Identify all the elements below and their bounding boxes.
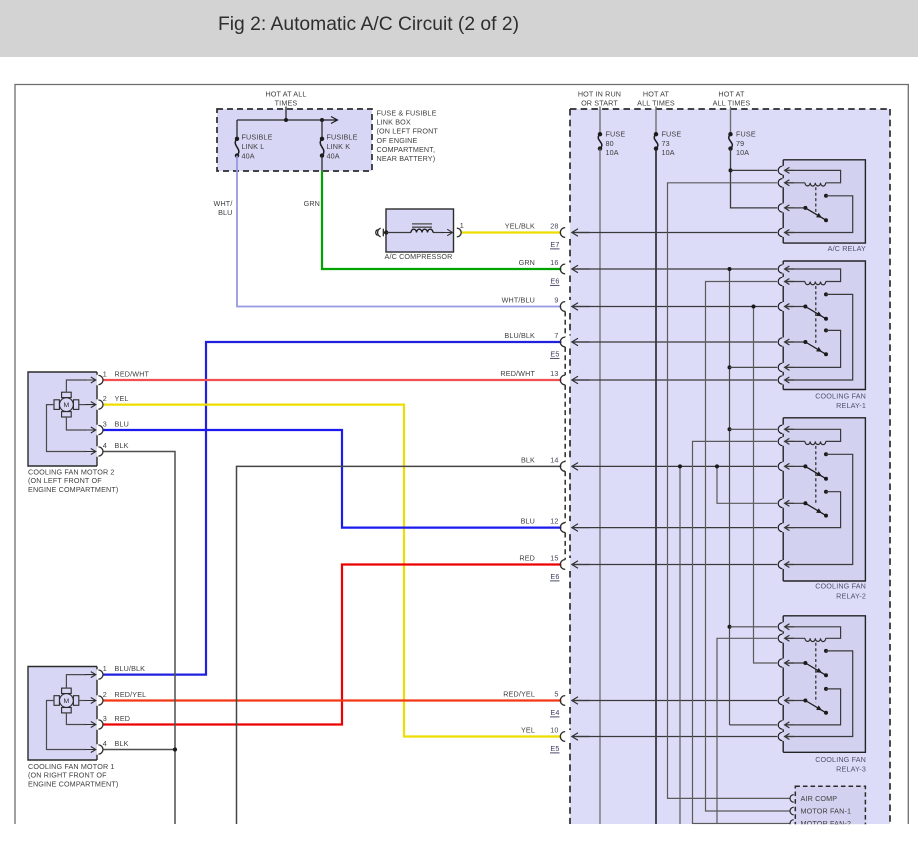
svg-text:BLK: BLK [115, 441, 129, 450]
wire BLK motor2 [103, 452, 175, 825]
cooling fan relay-1 box [783, 261, 865, 390]
svg-text:GRN: GRN [304, 199, 320, 208]
svg-text:RED: RED [115, 714, 131, 723]
node BLK branch [678, 464, 682, 468]
svg-text:BLK: BLK [521, 456, 535, 465]
cooling fan relay-2 pin 4 connector [778, 499, 782, 507]
A/C relay switch 1 output loop [785, 196, 853, 233]
wire BLK branch down [679, 466, 681, 824]
node GRN bus relay3 pin1 [728, 625, 732, 629]
wire row blu internal [572, 527, 777, 529]
cooling fan relay-3 coil feed loop [785, 627, 841, 639]
wire GRN [322, 171, 561, 269]
svg-text:15: 15 [550, 554, 558, 563]
svg-text:16: 16 [550, 258, 558, 267]
arrow RED/WHT [572, 376, 590, 384]
cooling fan motor 2 box [28, 372, 97, 466]
svg-text:1: 1 [103, 664, 107, 673]
cooling fan motor 1 wire pin2 [79, 700, 86, 702]
A/C relay actuator dashed link [815, 187, 817, 212]
node bus junction at link K [320, 118, 324, 122]
svg-text:WHT/: WHT/ [214, 199, 233, 208]
node GRN bus relay1 pin5 [728, 365, 732, 369]
connector pin MOTOR FAN-2 [790, 820, 794, 828]
cooling fan relay-3 pin 1 connector [778, 623, 782, 631]
wire BLK motor1 [103, 749, 175, 751]
svg-text:FUSIBLE: FUSIBLE [327, 133, 358, 142]
cooling fan relay-3 coil return wire [785, 637, 805, 639]
cooling fan relay-3 switch 2 blade [805, 701, 826, 713]
cooling fan relay-2 pin 5 arrow [785, 525, 795, 531]
wire RED/WHT [103, 379, 561, 381]
cooling fan relay-1 pin 2 connector [778, 277, 782, 285]
svg-text:YEL: YEL [115, 394, 129, 403]
cooling fan relay-2 coil feed loop [785, 429, 841, 441]
wire BLU [103, 430, 561, 528]
arrow BLK [572, 463, 590, 471]
svg-text:BLK: BLK [115, 739, 129, 748]
svg-text:(ON LEFT FRONT: (ON LEFT FRONT [377, 127, 439, 136]
cooling fan relay-1 pin 3 arrow [785, 304, 795, 310]
connector RED/YEL 5 [560, 696, 565, 706]
cooling fan motor 2 pin 1 arrow [85, 377, 96, 383]
svg-text:73: 73 [662, 139, 670, 148]
svg-text:5: 5 [554, 690, 558, 699]
cooling fan relay-2 pin 6 connector [778, 560, 782, 568]
compressor pin connector [457, 228, 461, 237]
cooling fan motor 1 pin 4 arrow [85, 747, 96, 753]
cooling fan relay-1 pin 4 arrow [785, 339, 795, 345]
cooling fan relay-3 pin 3 connector [778, 659, 782, 667]
svg-text:BLU/BLK: BLU/BLK [115, 664, 146, 673]
cooling fan motor 2 pin 1 connector [98, 375, 103, 384]
wire F79 branch to relay pin1 [731, 169, 778, 171]
cooling fan motor 2 pin 4 arrow [85, 449, 96, 455]
cooling fan relay-1 switch 1 blade [805, 307, 826, 319]
cooling fan relay-2 pin 5 connector [778, 523, 782, 531]
svg-text:2: 2 [103, 394, 107, 403]
cooling fan relay-2 pin 1 connector [778, 425, 782, 433]
svg-text:FUSE: FUSE [606, 130, 626, 139]
A/C relay switch 1 contact [824, 194, 828, 198]
svg-text:7: 7 [554, 331, 558, 340]
A/C relay pin 2 connector [778, 179, 782, 187]
node BLK branch relay2 [715, 464, 719, 468]
cooling fan relay-3 switch 1 blade [805, 663, 826, 675]
connector pin MOTOR FAN-1 [790, 807, 794, 815]
connector RED 15 [560, 560, 565, 570]
cooling fan relay-1 switch 1 contact [824, 292, 828, 296]
svg-text:ENGINE COMPARTMENT): ENGINE COMPARTMENT) [28, 779, 118, 788]
node F79 branch [729, 168, 733, 172]
node on YEL/BLK row [691, 231, 694, 234]
svg-text:Fig 2: Automatic A/C Circuit (: Fig 2: Automatic A/C Circuit (2 of 2) [218, 13, 519, 35]
wire GRN bus to relay3 pin5 [730, 724, 778, 726]
svg-text:FUSE: FUSE [736, 130, 756, 139]
cooling fan relay-2 actuator dashed link [815, 446, 817, 505]
connector BLU/BLK 7 [560, 337, 565, 347]
cooling fan motor 2 pin 3 arrow [85, 427, 96, 433]
wire feed F80 [599, 107, 601, 135]
wire RED/YEL [103, 699, 561, 701]
cooling fan relay-2 coil [805, 441, 826, 444]
cooling fan relay-2 pin 2 arrow [785, 438, 795, 444]
svg-text:ALL TIMES: ALL TIMES [637, 98, 675, 107]
arrow BLU [572, 524, 590, 532]
svg-text:40A: 40A [327, 151, 340, 160]
cooling fan relay-3 switch 1 contact [824, 649, 828, 653]
wire YEL/BLK [461, 231, 561, 233]
svg-text:3: 3 [103, 714, 107, 723]
svg-text:BLU: BLU [521, 517, 535, 526]
cooling fan relay-2 switch 2 contact [824, 490, 828, 494]
svg-text:YEL: YEL [521, 726, 535, 735]
svg-text:79: 79 [736, 139, 744, 148]
cooling fan relay-1 pin 6 connector [778, 376, 782, 384]
svg-text:BLU: BLU [218, 208, 232, 217]
wire row blk internal [572, 465, 777, 467]
cooling fan relay-3 switch 2 contact [824, 687, 828, 691]
wire relay3 coil return [717, 638, 777, 824]
cooling fan relay-3 switch 1 output loop [785, 651, 853, 737]
cooling fan motor 2 pin 2 arrow [85, 402, 96, 408]
svg-text:4: 4 [103, 739, 107, 748]
cooling fan relay-1 pin 1 connector [778, 265, 782, 273]
cooling fan relay-3 pin 5 arrow [785, 722, 795, 728]
A/C relay pin 3 connector [778, 204, 782, 212]
svg-text:OR START: OR START [581, 98, 618, 107]
svg-text:FUSE: FUSE [662, 130, 682, 139]
wire link box bus [237, 119, 322, 121]
cooling fan motor 1 box [28, 667, 97, 761]
fuse/relay box fill [570, 109, 890, 824]
wire link K lower stub [321, 156, 323, 171]
svg-text:COOLING FAN: COOLING FAN [815, 582, 866, 591]
wire F80 bus [599, 149, 601, 824]
compressor coil core bars [412, 223, 432, 225]
wire feed F73 [655, 107, 657, 135]
fuse/relay box border top/right [570, 109, 890, 824]
cooling fan relay-1 coil feed loop [785, 269, 841, 282]
cooling fan relay-3 pin 1 arrow [785, 624, 795, 630]
wire BLU/BLK [103, 342, 561, 675]
svg-text:10A: 10A [606, 148, 619, 157]
cooling fan relay-2 box [783, 418, 865, 581]
cooling fan relay-3 switch 2 feed [785, 700, 806, 702]
wire relay1 coil return to MOTOR FAN-1 [706, 282, 791, 812]
wire A/C relay coil return to AIR COMP [668, 183, 791, 799]
svg-text:E6: E6 [550, 277, 559, 286]
connector pin AIR COMP [790, 795, 794, 803]
cooling fan relay-3 pin 2 arrow [785, 635, 795, 641]
cooling fan relay-2 switch 1 output loop [785, 454, 853, 564]
svg-text:HOT IN RUN: HOT IN RUN [578, 90, 621, 99]
wire compressor internal [386, 232, 411, 234]
A/C relay coil return wire [785, 182, 805, 184]
compressor output arrow [442, 229, 453, 235]
fusible link L [235, 137, 239, 141]
wire GRN bus to relay1 pin5 [730, 366, 778, 368]
connector GRN 16 [560, 264, 565, 274]
wire to fusible link K [321, 120, 323, 139]
arrow GRN [572, 265, 590, 273]
svg-text:COMPARTMENT,: COMPARTMENT, [377, 145, 436, 154]
svg-text:1: 1 [103, 370, 107, 379]
node GRN bus at GRN row [728, 267, 732, 271]
wire F73 bus [655, 149, 657, 824]
cooling fan motor 2 armature M [62, 392, 72, 397]
svg-text:12: 12 [550, 517, 558, 526]
svg-text:10: 10 [550, 726, 558, 735]
svg-text:2: 2 [103, 690, 107, 699]
svg-text:E7: E7 [550, 240, 559, 249]
cooling fan relay-1 switch 2 contact [824, 328, 828, 332]
svg-text:A/C RELAY: A/C RELAY [828, 244, 866, 253]
wire to fusible link L [236, 120, 238, 139]
compressor clutch symbol [382, 229, 384, 237]
svg-text:E5: E5 [550, 744, 559, 753]
wire BLK 14 [237, 466, 562, 824]
cooling fan relay-3 pin 4 connector [778, 696, 782, 704]
svg-text:9: 9 [554, 296, 558, 305]
wire F79 to A/C relay [731, 149, 778, 208]
svg-text:LINK K: LINK K [327, 142, 351, 151]
cooling fan motor 1 pin 1 connector [98, 670, 103, 679]
svg-text:COOLING FAN MOTOR 2: COOLING FAN MOTOR 2 [28, 468, 115, 477]
wire row redyel internal [572, 700, 777, 702]
svg-text:(ON LEFT FRONT OF: (ON LEFT FRONT OF [28, 476, 102, 485]
svg-text:M: M [63, 402, 69, 409]
svg-text:E6: E6 [550, 572, 559, 581]
ECM connector box [795, 786, 865, 831]
svg-text:FUSIBLE: FUSIBLE [242, 133, 273, 142]
cooling fan relay-3 switch 1 feed [785, 662, 806, 664]
A/C relay pin 3 arrow [785, 205, 795, 211]
cooling fan relay-3 coil [805, 638, 826, 641]
cooling fan motor 1 wire pin4 [47, 701, 87, 750]
arrow WHT/BLU [572, 303, 590, 311]
connector YEL 10 [560, 732, 565, 742]
cooling fan relay-2 pin 3 arrow [785, 463, 795, 469]
svg-text:1: 1 [460, 221, 464, 230]
svg-text:FUSE & FUSIBLE: FUSE & FUSIBLE [377, 109, 437, 118]
fuse F80 [598, 132, 602, 136]
A/C relay pin 1 arrow [785, 167, 795, 173]
svg-text:WHT/BLU: WHT/BLU [502, 296, 535, 305]
svg-text:ENGINE COMPARTMENT): ENGINE COMPARTMENT) [28, 485, 118, 494]
svg-text:HOT AT: HOT AT [643, 90, 670, 99]
connector WHT/BLU 9 [560, 302, 565, 312]
A/C relay switch 1 feed [785, 207, 806, 209]
wire YEL [103, 405, 561, 737]
bus arrow right [322, 117, 338, 124]
cooling fan relay-1 coil return wire [785, 281, 805, 283]
connector BLK 14 [560, 462, 565, 472]
wire GRN bus [729, 269, 731, 725]
title bar [0, 0, 918, 57]
cooling fan relay-1 pin 1 arrow [785, 266, 795, 272]
svg-text:RED/WHT: RED/WHT [500, 369, 535, 378]
svg-text:COOLING FAN: COOLING FAN [815, 391, 866, 400]
cooling fan motor 2 wire pin2 [79, 404, 86, 406]
A/C relay pin 4 connector [778, 228, 782, 236]
cooling fan relay-3 actuator dashed link [815, 643, 817, 703]
svg-text:ALL TIMES: ALL TIMES [713, 98, 751, 107]
svg-text:NEAR BATTERY): NEAR BATTERY) [377, 154, 436, 163]
wire relay2 coil return to MOTOR FAN-2 [693, 441, 791, 823]
A/C relay coil feed loop [785, 170, 841, 182]
svg-text:HOT AT: HOT AT [718, 90, 745, 99]
svg-text:10A: 10A [662, 148, 675, 157]
cooling fan relay-3 box [783, 616, 865, 753]
cooling fan relay-1 pin 4 connector [778, 338, 782, 346]
cooling fan motor 2 pin 4 connector [98, 447, 103, 456]
svg-text:(ON RIGHT FRONT OF: (ON RIGHT FRONT OF [28, 771, 107, 780]
arrow RED/YEL [572, 697, 590, 705]
wire row yelblk internal [572, 232, 777, 234]
cooling fan motor 2 wire pin3 [66, 417, 86, 430]
svg-text:80: 80 [606, 139, 614, 148]
cooling fan relay-1 switch 2 output loop [785, 330, 841, 367]
compressor clutch coil [411, 229, 433, 232]
svg-text:AIR COMP: AIR COMP [801, 794, 838, 803]
fuse F79 [728, 132, 732, 136]
cooling fan motor 1 wire pin1 [66, 675, 86, 689]
cooling fan relay-2 pin 4 arrow [785, 500, 795, 506]
svg-text:RED/YEL: RED/YEL [503, 690, 535, 699]
cooling fan motor 1 pin 2 connector [98, 696, 103, 705]
svg-text:E4: E4 [550, 708, 559, 717]
svg-text:YEL/BLK: YEL/BLK [505, 222, 535, 231]
cooling fan motor 1 pin 2 arrow [85, 698, 96, 704]
cooling fan motor 2 wire pin1 [66, 380, 86, 392]
node bus junction [284, 118, 288, 122]
svg-text:RED/YEL: RED/YEL [115, 690, 147, 699]
cooling fan relay-1 switch 1 feed [785, 306, 806, 308]
svg-text:3: 3 [103, 420, 107, 429]
svg-text:28: 28 [550, 222, 558, 231]
node GRN bus relay2 pin1 [728, 427, 732, 431]
cooling fan relay-2 coil return wire [785, 440, 805, 442]
cooling fan relay-1 pin 2 arrow [785, 279, 795, 285]
svg-text:OF ENGINE: OF ENGINE [377, 136, 418, 145]
fuse F73 [654, 132, 658, 136]
wire WHT/BLU [237, 156, 561, 307]
wire BLK branch to relay2 pin4 [717, 466, 777, 503]
cooling fan relay-3 switch 2 output loop [785, 689, 841, 725]
cooling fan relay-1 switch 2 feed [785, 341, 806, 343]
svg-text:COOLING FAN MOTOR 1: COOLING FAN MOTOR 1 [28, 762, 115, 771]
svg-text:RELAY-3: RELAY-3 [836, 765, 866, 774]
inner harness connector dash line [564, 311, 566, 559]
svg-text:E5: E5 [550, 350, 559, 359]
arrow RED [572, 561, 590, 569]
cooling fan relay-1 pin 5 arrow [785, 364, 795, 370]
wire row grn internal [572, 268, 777, 270]
cooling fan relay-2 switch 2 blade [805, 503, 826, 515]
A/C compressor box [386, 209, 454, 252]
cooling fan relay-1 pin 5 connector [778, 363, 782, 371]
connector BLU 12 [560, 523, 565, 533]
cooling fan relay-1 switch 2 blade [805, 342, 826, 354]
cooling fan motor 1 wire pin3 [66, 713, 86, 725]
cooling fan motor 2 pin 2 connector [98, 400, 103, 409]
cooling fan relay-3 pin 2 connector [778, 634, 782, 642]
cooling fan motor 2 wire pin4 [47, 405, 87, 452]
wire row yel internal [572, 736, 777, 738]
A/C relay box [783, 160, 865, 243]
cooling fan motor 1 armature M [62, 688, 72, 693]
svg-text:GRN: GRN [519, 258, 535, 267]
arrow YEL/BLK [572, 229, 590, 237]
A/C relay pin 2 arrow [785, 180, 795, 186]
svg-text:COOLING FAN: COOLING FAN [815, 755, 866, 764]
wire row blublk internal [572, 341, 777, 343]
svg-text:M: M [63, 698, 69, 705]
cooling fan relay-3 pin 6 connector [778, 732, 782, 740]
svg-text:4: 4 [103, 441, 107, 450]
arrow BLU/BLK [572, 338, 590, 346]
svg-text:LINK L: LINK L [242, 142, 265, 151]
cooling fan motor 1 pin 1 arrow [85, 672, 96, 678]
node WHT/BLU branch [752, 305, 756, 309]
svg-text:RELAY-2: RELAY-2 [836, 592, 866, 601]
svg-text:10A: 10A [736, 148, 749, 157]
wire row red internal [572, 564, 777, 566]
cooling fan relay-2 switch 1 blade [805, 466, 826, 478]
cooling fan relay-2 switch 1 contact [824, 452, 828, 456]
wire hot feed into link box [285, 107, 287, 121]
fuse/relay box border left [569, 109, 571, 824]
A/C relay switch 1 blade [805, 208, 826, 220]
node BLK junction [173, 747, 177, 751]
A/C relay coil [805, 183, 826, 186]
cooling fan relay-2 switch 2 feed [785, 502, 806, 504]
cooling fan relay-3 pin 3 arrow [785, 660, 795, 666]
svg-text:A/C COMPRESSOR: A/C COMPRESSOR [385, 252, 453, 261]
cooling fan relay-2 switch 2 output loop [785, 492, 841, 528]
svg-text:BLU/BLK: BLU/BLK [504, 331, 535, 340]
svg-text:HOT AT ALL: HOT AT ALL [265, 90, 306, 99]
svg-text:14: 14 [550, 456, 558, 465]
cooling fan relay-1 actuator dashed link [815, 286, 817, 344]
cooling fan relay-1 pin 6 arrow [785, 377, 795, 383]
A/C relay pin 1 connector [778, 166, 782, 174]
fuse & fusible link box [217, 109, 372, 171]
wire row redwht internal [572, 379, 777, 381]
cooling fan relay-3 pin 5 connector [778, 721, 782, 729]
svg-text:RELAY-1: RELAY-1 [836, 401, 866, 410]
cooling fan relay-3 pin 6 arrow [785, 734, 795, 740]
cooling fan relay-1 coil [805, 282, 826, 285]
cooling fan relay-2 pin 2 connector [778, 437, 782, 445]
cooling fan relay-1 pin 3 connector [778, 302, 782, 310]
svg-text:40A: 40A [242, 151, 255, 160]
cooling fan relay-2 pin 3 connector [778, 462, 782, 470]
fusible link K [320, 137, 324, 141]
svg-text:RED/WHT: RED/WHT [115, 370, 150, 379]
connector RED/WHT 13 [560, 375, 565, 385]
svg-text:MOTOR FAN-1: MOTOR FAN-1 [801, 807, 852, 816]
arrow YEL [572, 733, 590, 741]
cooling fan relay-2 pin 6 arrow [785, 562, 795, 568]
connector YEL/BLK 28 [560, 228, 565, 238]
cooling fan motor 2 pin 3 connector [98, 425, 103, 434]
svg-text:LINK BOX: LINK BOX [377, 118, 411, 127]
cooling fan relay-1 switch 1 output loop [785, 294, 853, 380]
svg-text:MOTOR FAN-2: MOTOR FAN-2 [801, 819, 852, 828]
wire WHT/BLU branch to relay3 [754, 307, 778, 664]
